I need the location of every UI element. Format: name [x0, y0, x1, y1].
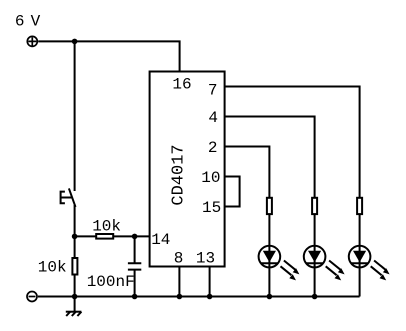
node junction ground [72, 294, 78, 300]
svg-text:8: 8 [174, 250, 184, 268]
resistor R4 LED branch 2 [312, 198, 317, 214]
svg-text:CD4017: CD4017 [170, 144, 189, 205]
resistor R3 LED branch 1 [267, 198, 272, 214]
LED D3 triangle and cathode bar [351, 251, 367, 264]
node junction pin 8 [177, 294, 183, 300]
wire node to IC pin 14 [75, 235, 150, 237]
wire pin 7 to LED branch 3 [225, 87, 360, 297]
LED D1 light arrows [281, 261, 300, 281]
wire from switch to node [74, 205, 76, 236]
node junction LED branch 2 [312, 294, 318, 300]
LED D1 triangle and cathode bar [261, 251, 277, 264]
LED D2 circle [304, 246, 326, 268]
battery negative terminal [27, 292, 37, 302]
resistor R2 10k horizontal [96, 234, 113, 239]
wire pins 10-15 strap [225, 177, 240, 207]
capacitor C1 100nF [128, 236, 141, 296]
wire node down through R1 to bottom rail [74, 236, 76, 296]
svg-text:6 V: 6 V [15, 12, 41, 30]
resistor R1 10k vertical [72, 258, 77, 275]
svg-text:7: 7 [208, 82, 218, 100]
svg-text:13: 13 [196, 250, 215, 268]
wire pin 13 to bottom rail [209, 267, 211, 297]
wire pin 2 to LED branch 1 [225, 147, 270, 297]
svg-text:10k: 10k [38, 259, 67, 277]
resistor R5 LED branch 3 [357, 198, 362, 214]
LED D3 circle [349, 246, 371, 268]
node junction LED branch 1 [267, 294, 273, 300]
svg-text:10: 10 [201, 169, 220, 187]
svg-text:15: 15 [202, 199, 221, 217]
wire pin 8 to bottom rail [178, 267, 180, 297]
switch S1 push-button actuator [61, 192, 72, 204]
IC U1 CD4017 body [150, 72, 225, 267]
LED D2 triangle and cathode bar [306, 251, 322, 264]
node junction top rail [72, 39, 78, 45]
wire from top rail down to switch [74, 41, 76, 191]
ground symbol [66, 297, 82, 317]
wire bottom rail [38, 296, 360, 298]
node junction capacitor top [132, 234, 138, 240]
svg-text:16: 16 [172, 76, 191, 94]
wire pin 4 to LED branch 2 [225, 117, 315, 297]
node junction pin 13 [207, 294, 213, 300]
node junction capacitor bottom [132, 294, 138, 300]
svg-text:14: 14 [151, 231, 170, 249]
LED D2 light arrows [326, 261, 345, 281]
svg-text:4: 4 [208, 109, 218, 127]
svg-text:10k: 10k [92, 217, 121, 235]
LED D1 circle [259, 246, 281, 268]
node junction left (switch / R1 / R2 / pin14) [72, 234, 78, 240]
switch S1 push-button lever [69, 188, 76, 207]
svg-text:100nF: 100nF [87, 273, 135, 291]
LED D3 light arrows [371, 261, 390, 281]
svg-text:2: 2 [208, 139, 218, 157]
battery positive terminal [27, 36, 37, 46]
wire top rail from + to IC pin16 [38, 41, 179, 72]
